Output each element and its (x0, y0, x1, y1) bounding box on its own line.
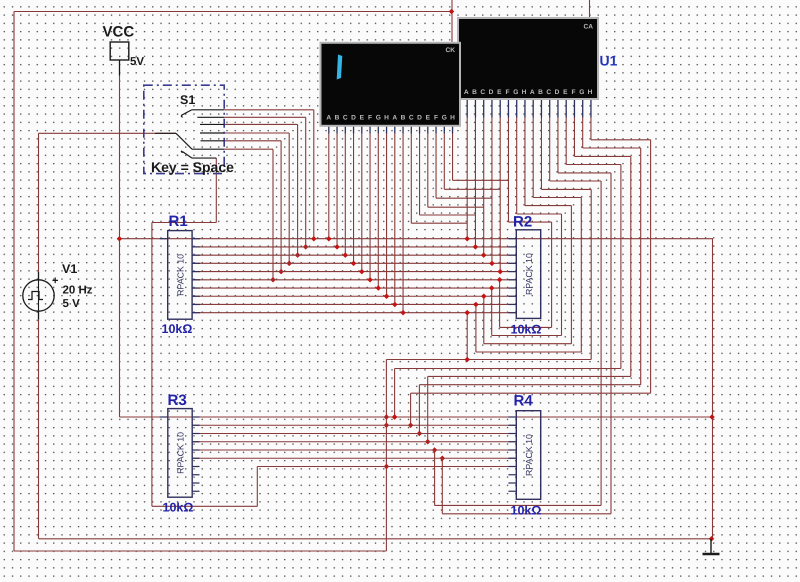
svg-text:E: E (360, 115, 365, 122)
svg-text:C: C (480, 89, 485, 96)
wire left display pin 8 drop (386, 134, 388, 297)
pin 3 left display stub (344, 124, 346, 133)
junction S1 contact 2 / rail 2 (303, 244, 309, 250)
wire back-left y=376.4 (428, 375, 631, 377)
pin 1 left display stub (328, 124, 330, 133)
pin 13 right display stub (565, 98, 567, 118)
pin 8 left display stub (386, 124, 388, 133)
svg-text:RPACK 10: RPACK 10 (524, 434, 534, 476)
wire S1 contact 2 vertical (305, 117, 307, 247)
wire rail R3-1 horizontal (120, 416, 713, 418)
wire up to R3 rail x=434.6 (434, 450, 436, 505)
pin 11 left display stub (410, 124, 412, 133)
wire rail 1 horizontal (119, 238, 713, 240)
svg-text:G: G (442, 115, 447, 122)
wire R2 pin10 descent (466, 313, 468, 360)
wire back-left y=352.0 (476, 351, 581, 353)
svg-text:F: F (434, 115, 438, 122)
pin R1-2 right (192, 246, 200, 248)
wire right display pin 9 drop (532, 118, 534, 198)
junction right display pin 4 / rail 4 (489, 261, 495, 267)
svg-text:E: E (563, 89, 568, 96)
wire R2 pin descent x=499.6 (499, 280, 501, 328)
resistor pack R2 box (516, 230, 540, 319)
wire right display pin 14 across (574, 155, 630, 157)
junction left display pin 6 / rail 6 (367, 277, 373, 283)
pin 6 right display stub (507, 98, 509, 118)
pin R3-10 right (192, 490, 200, 492)
pin R4-4 left (508, 441, 516, 443)
svg-text:F: F (368, 115, 372, 122)
svg-text:RPACK 10: RPACK 10 (524, 253, 534, 295)
wire right display pin 14 drop (573, 118, 575, 157)
wire S1 arm out vertical (215, 158, 217, 222)
junction a-wire / R3 rail (392, 414, 398, 420)
16-segment display U1 left digit (CK) (320, 42, 462, 127)
resistor pack R4 box (516, 411, 540, 500)
wire right display pin 13 drop (565, 118, 567, 165)
wire up to R3 rail x=442.3 (441, 458, 443, 514)
pin R3-9 right (192, 482, 200, 484)
junction x=386 / R3 rail1 (384, 414, 390, 420)
wire left display pin 15 drop (443, 134, 445, 190)
wire bundle vertical x=621 (620, 165, 622, 369)
svg-text:E: E (426, 115, 431, 122)
wire left display pin 5 drop (361, 134, 363, 272)
svg-text:D: D (417, 115, 422, 122)
svg-text:RPACK 10: RPACK 10 (175, 254, 185, 296)
wire back-left y=343.7 (484, 343, 572, 345)
junction a-wire / R3 rail (417, 431, 423, 437)
junction R2 pin / rail (473, 302, 479, 308)
wire rail 4 R1-R2 (192, 262, 516, 264)
wire rail 3 R1-R2 (192, 254, 516, 256)
wire right display pin 9 across (533, 197, 581, 199)
wire V1 to S1 pole (39, 132, 177, 134)
junction a-wire / R3 rail (425, 439, 431, 445)
svg-text:10kΩ: 10kΩ (511, 323, 542, 337)
wire S1 arm long vertical x=152 (151, 223, 153, 507)
pin 5 left display stub (361, 124, 363, 133)
svg-text:10kΩ: 10kΩ (163, 501, 194, 515)
junction S1 contact 6 / rail 6 (270, 277, 276, 283)
junction right display pin 3 / rail 3 (481, 252, 487, 258)
svg-text:B: B (335, 115, 340, 122)
wire right display pin 12 drop (557, 118, 559, 173)
wire R3 rail 6 (192, 457, 517, 459)
wire under R4 y=505.4 (435, 504, 601, 506)
svg-text:10kΩ: 10kΩ (511, 504, 542, 518)
pin R3-8 right (192, 474, 200, 476)
wire V1 bottom vertical (38, 320, 40, 539)
pin R3 common left (160, 416, 168, 418)
junction L-wire / R3 rail (440, 455, 446, 461)
wire CA pin up off-sheet (589, 0, 591, 20)
pin R3-1 right (192, 416, 200, 418)
svg-text:E: E (497, 89, 502, 96)
wire rail 9 R1-R2 (192, 303, 516, 305)
wire left display pin 12 drop (419, 134, 421, 216)
wire S1 contact 5 horizontal (224, 140, 281, 142)
svg-text:CA: CA (584, 24, 594, 31)
pin 7 right display stub (516, 98, 518, 118)
wire right display pin 12 across (558, 172, 611, 174)
pin R3-2 right (192, 424, 200, 426)
svg-text:10kΩ: 10kΩ (162, 322, 193, 336)
ground symbol (703, 539, 720, 554)
svg-text:A: A (530, 89, 535, 96)
source V1 (square wave) (23, 272, 54, 320)
wire left display pin 3 drop (344, 134, 346, 256)
svg-text:U1: U1 (600, 53, 618, 69)
wire S1 contact 4 vertical (288, 133, 290, 263)
pin R4-3 left (508, 433, 516, 435)
wire right display pin 2 drop to rail (474, 118, 476, 247)
svg-text:RPACK 10: RPACK 10 (176, 432, 186, 474)
pin R1-8 right (192, 295, 200, 297)
wire bundle vertical x=571 (570, 206, 572, 344)
pin R2-10 left (508, 312, 516, 314)
pin 1 right display stub (466, 98, 468, 118)
wire S1 contact 1 horizontal (224, 109, 314, 111)
wire h5 long horizontal y=359.5 (386, 359, 591, 361)
junction R2 pin / rail (489, 285, 495, 291)
pin R2-4 left (508, 262, 516, 264)
pin 15 right display stub (582, 98, 584, 118)
pin R2-5 left (508, 271, 516, 273)
svg-text:C: C (409, 115, 414, 122)
wire right display pin 6 drop (507, 118, 509, 223)
pin 2 left display stub (336, 124, 338, 133)
junction R2 pin10 / rail10 (464, 310, 470, 316)
junction ground (709, 536, 715, 542)
wire S1 contact 3 vertical (297, 124, 299, 255)
wire bundle vertical x=641 (640, 148, 642, 385)
wire left display pin 7 drop (377, 134, 379, 289)
VCC power symbol (110, 42, 129, 76)
junction L-wire / R3 rail (432, 447, 438, 453)
wire left display pin 15 jog right (444, 188, 500, 190)
svg-text:G: G (376, 115, 381, 122)
pin R4-5 left (508, 449, 516, 451)
pin R1-6 right (192, 279, 200, 281)
junction left display pin 8 / rail 8 (384, 293, 390, 299)
wire R2 pin descent x=483.8 (483, 296, 485, 343)
pin 14 right display stub (573, 98, 575, 118)
pin R1-1 right (192, 238, 200, 240)
svg-text:R3: R3 (168, 392, 187, 409)
pin R4-6 left (508, 457, 516, 459)
wire bundle vertical x=552 (551, 222, 553, 327)
resistor pack R1 box (168, 231, 192, 320)
svg-text:S1: S1 (180, 93, 195, 107)
wire CK pin to top border (451, 0, 453, 44)
junction R2 pin / rail (497, 277, 503, 283)
wire bundle vertical x=562 (561, 214, 563, 336)
wire bundle vertical x=631 (630, 156, 632, 376)
wire R3 rail 5 (192, 449, 517, 451)
junction right display pin 2 / rail 2 (473, 244, 479, 250)
svg-text:H: H (522, 89, 527, 96)
wire rail 6 R1-R2 (192, 279, 516, 281)
wire left display pin 9 drop (394, 134, 396, 305)
svg-text:G: G (579, 89, 584, 96)
svg-text:H: H (384, 115, 389, 122)
junction x=386 / R3 rail2 (384, 422, 390, 428)
pin R3-4 right (192, 441, 200, 443)
svg-text:VCC: VCC (103, 24, 135, 41)
svg-text:A: A (392, 115, 397, 122)
svg-text:5 V: 5 V (63, 298, 81, 310)
svg-text:+: + (52, 275, 58, 287)
svg-text:Key = Space: Key = Space (151, 159, 234, 175)
svg-text:C: C (343, 115, 348, 122)
pin R4-8 left (508, 474, 516, 476)
wire right display pin 10 drop (540, 118, 542, 190)
wire left display pin 11 jog right (411, 222, 467, 224)
wire bottom outer (14, 550, 386, 552)
wire R2 pin descent x=475.9 (475, 304, 477, 352)
wire S1 contact 6 vertical (272, 149, 274, 280)
pin R2-7 left (508, 287, 516, 289)
pin R1-10 right (192, 312, 200, 314)
wire drop to R3 rail x=427.7 (427, 376, 429, 441)
wire left display pin 12 jog right (420, 214, 476, 216)
junction right display pin 5 / rail 5 (497, 269, 503, 275)
pin 4 left display stub (353, 124, 355, 133)
junction S1 contact 4 / rail 4 (286, 261, 292, 267)
wire R3 rail 2 (192, 424, 517, 426)
svg-text:B: B (538, 89, 543, 96)
svg-text:D: D (555, 89, 560, 96)
wire rail 2 R1-R2 (192, 246, 516, 248)
16-segment display U1 right digit (CA) (457, 17, 599, 100)
pin R3-3 right (192, 433, 200, 435)
wire R3 rail 4 (192, 441, 517, 443)
svg-text:R1: R1 (169, 213, 188, 230)
pin R1 common left (160, 238, 168, 240)
pin R2-3 left (508, 254, 516, 256)
pin R1-5 right (192, 271, 200, 273)
wire left display pin 14 jog right (436, 197, 492, 199)
junction x=712 / rail R3-1 (709, 414, 715, 420)
junction left display pin 3 / rail 3 (343, 252, 349, 258)
pin R4-1 left (508, 416, 516, 418)
pin 9 right display stub (532, 98, 534, 118)
svg-text:A: A (326, 115, 331, 122)
pin 3 right display stub (483, 98, 485, 118)
wire left display pin 10 drop (402, 134, 404, 313)
svg-text:R4: R4 (514, 393, 534, 410)
pin 2 right display stub (474, 98, 476, 118)
svg-text:D: D (351, 115, 356, 122)
junction S1 contact 3 / rail 3 (295, 252, 301, 258)
wire left display pin 13 jog right (428, 206, 484, 208)
svg-text:B: B (472, 89, 477, 96)
wire VCC vertical down (119, 75, 121, 417)
svg-text:CK: CK (446, 47, 456, 54)
junction R2 pin10 / h5 (464, 357, 470, 363)
wire S1 arm vertical up x=257 (256, 467, 258, 507)
wire right display pin 16 drop (590, 118, 592, 140)
wire right display pin 15 drop (582, 118, 584, 149)
pin 15 left display stub (443, 124, 445, 133)
svg-text:A: A (464, 89, 469, 96)
pin 12 right display stub (557, 98, 559, 118)
wire S1 arm horizontal under R3 (152, 505, 257, 507)
wire back-left y=393.2 (411, 392, 651, 394)
pin R1-7 right (192, 287, 200, 289)
pin R1-4 right (192, 262, 200, 264)
wire back-left y=335.5 (492, 335, 562, 337)
pin R2-2 left (508, 246, 516, 248)
svg-text:H: H (588, 89, 593, 96)
wire S1 contact 2 horizontal (224, 116, 306, 118)
wire S1 contact 4 horizontal (224, 132, 289, 134)
pin R1-3 right (192, 254, 200, 256)
wire drop to R3 rail x=419.4 (418, 385, 420, 434)
wire left display pin 2 drop (336, 134, 338, 247)
wire bundle vertical x=591 (590, 189, 592, 359)
wire bottom ground rail (39, 538, 711, 540)
pin 16 right display stub (590, 98, 592, 118)
wire bundle vertical x=601 (600, 181, 602, 505)
svg-text:D: D (489, 89, 494, 96)
pin R1-9 right (192, 303, 200, 305)
wire right display pin 6 across (508, 221, 551, 223)
pin R2-8 left (508, 295, 516, 297)
svg-text:V1: V1 (62, 262, 77, 276)
junction VCC vertical / rail1 (117, 236, 123, 242)
wire back-left y=368.5 (395, 368, 621, 370)
pin R4-2 left (508, 424, 516, 426)
svg-text:F: F (572, 89, 576, 96)
pin 14 left display stub (435, 124, 437, 133)
junction a-wire x=394.6 / rail1 (392, 414, 398, 420)
pin R2-1 left (508, 238, 516, 240)
junction left display pin 5 / rail 5 (359, 269, 365, 275)
wire right display pin 11 across (550, 180, 601, 182)
wire left display pin 1 drop (328, 134, 330, 239)
wire left display pin 4 drop (353, 134, 355, 264)
junction S1 contact 1 / rail 1 (311, 236, 317, 242)
wire R3 rail 3 (192, 433, 517, 435)
wire bundle vertical x=611 (610, 173, 612, 514)
pin R2-9 left (508, 303, 516, 305)
junction S1 contact 5 / rail 5 (278, 269, 284, 275)
wire left display pin 6 drop (369, 134, 371, 280)
pin 9 left display stub (394, 124, 396, 133)
pin 10 left display stub (402, 124, 404, 133)
wire back-left y=384.7 (419, 384, 640, 386)
wire right display pin 7 drop (516, 118, 518, 215)
wire right display pin 3 drop to rail (483, 118, 485, 256)
wire right display pin 13 across (566, 164, 621, 166)
wire long vertical x=386.4 (385, 360, 387, 552)
wire left display pin 11 drop (410, 134, 412, 224)
wire right display pin 7 across (517, 213, 562, 215)
wire left border (13, 12, 15, 552)
switch S1 contacts and arms (155, 110, 224, 158)
svg-text:G: G (513, 89, 518, 96)
wire S1 contact 5 vertical (280, 141, 282, 272)
wire right display pin 15 across (583, 147, 641, 149)
pin R3-7 right (192, 466, 200, 468)
wire top border (CK net) (14, 11, 452, 13)
pin 13 left display stub (427, 124, 429, 133)
wire V1 top vertical (38, 133, 40, 272)
svg-text:20 Hz: 20 Hz (63, 285, 93, 297)
wire right display pin 16 across (591, 139, 651, 141)
pin 6 left display stub (369, 124, 371, 133)
svg-text:H: H (450, 115, 455, 122)
svg-text:C: C (546, 89, 551, 96)
pin 7 left display stub (377, 124, 379, 133)
wire right display pin 5 drop to rail (499, 118, 501, 272)
wire right display pin 4 drop to rail (491, 118, 493, 264)
pin R4-10 left (508, 490, 516, 492)
svg-text:F: F (506, 89, 510, 96)
pin R3-6 right (192, 457, 200, 459)
junction left display pin 10 / rail 10 (400, 310, 406, 316)
wire right display pin 11 drop (549, 118, 551, 182)
wire rail 8 R1-R2 (192, 295, 516, 297)
junction left display pin 9 / rail 9 (392, 302, 398, 308)
svg-text:B: B (401, 115, 406, 122)
junction R2 pin / rail (481, 293, 487, 299)
pin R4-7 left (508, 466, 516, 468)
wire R2 pin descent x=491.7 (491, 288, 493, 335)
junction x=386 / S1-arm net (384, 464, 390, 470)
wire S1 contact 1 vertical (313, 110, 315, 239)
wire under R4 y=513.8 (442, 513, 611, 515)
pin R4-9 left (508, 482, 516, 484)
wire bundle vertical x=651 (650, 140, 652, 393)
junction right display pin 1 / rail 1 (464, 236, 470, 242)
pin 4 right display stub (491, 98, 493, 118)
pin 10 right display stub (540, 98, 542, 118)
lit segment (cyan) on left display (337, 55, 343, 80)
wire S1 contact 3 horizontal (224, 123, 297, 125)
wire right vertical x=712 (712, 239, 714, 539)
svg-text:5V: 5V (130, 56, 144, 68)
wire bundle vertical x=581 (580, 198, 582, 353)
wire right display pin 10 across (541, 188, 591, 190)
wire right display pin 8 across (525, 205, 571, 207)
pin R3-5 right (192, 449, 200, 451)
wire left display pin 16 drop (452, 134, 454, 181)
wire S1 arm horizontal above R1 (152, 222, 216, 224)
wire right display pin 8 drop (524, 118, 526, 206)
pin 8 right display stub (524, 98, 526, 118)
wire rail 10 R1-R2 (192, 312, 516, 314)
pin 11 right display stub (549, 98, 551, 118)
pin 5 right display stub (499, 98, 501, 118)
junction left display pin 4 / rail 4 (351, 261, 357, 267)
pin 16 left display stub (452, 124, 454, 133)
wire left display pin 13 drop (427, 134, 429, 208)
wire rail 5 R1-R2 (192, 271, 516, 273)
wire right display pin 1 drop to rail (466, 118, 468, 239)
junction left display pin 7 / rail 7 (376, 285, 382, 291)
pin R2-6 left (508, 279, 516, 281)
junction left display pin 1 / rail 1 (326, 236, 332, 242)
wire S1 contact 6 horizontal (224, 148, 273, 150)
wire left display pin 14 drop (435, 134, 437, 199)
junction left display pin 2 / rail 2 (334, 244, 340, 250)
wire back-left y=327.4 (500, 326, 552, 328)
resistor pack R3 box (168, 409, 192, 498)
